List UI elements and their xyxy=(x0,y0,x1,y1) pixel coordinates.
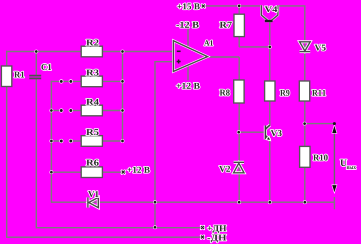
node right-bus-top xyxy=(121,50,124,53)
resistor R1 xyxy=(1,66,11,87)
wire bottom rail lower xyxy=(7,236,201,238)
resistor R3 xyxy=(81,76,102,87)
wire V5 R11 top xyxy=(304,6,306,81)
wire top +15V rail a xyxy=(206,5,261,7)
label 'R5' xyxy=(86,129,98,135)
node bottom 270 xyxy=(268,201,271,204)
contact R5 a xyxy=(60,140,63,143)
resistor R5 xyxy=(81,136,102,147)
label 'R9' xyxy=(280,90,289,96)
wire C1 bottom lead xyxy=(35,79,37,228)
label '-ДН' xyxy=(207,235,226,243)
wire R1 top lead xyxy=(6,51,8,66)
Uout dimension arrow xyxy=(332,126,336,193)
node base xyxy=(237,131,240,134)
wire R1 bottom lead xyxy=(6,87,8,238)
wire op-amp pos supply stub xyxy=(187,65,189,80)
label 'вых' xyxy=(347,166,356,169)
wire right bus xyxy=(122,51,124,142)
wire op-amp neg supply stub xyxy=(187,29,189,48)
wire R10 bottom xyxy=(304,167,306,202)
node bottom 305 xyxy=(303,201,306,204)
node Uout tap xyxy=(303,122,306,125)
resistor R8 xyxy=(234,80,244,103)
terminal bar output xyxy=(333,197,335,209)
label 'R10' xyxy=(313,155,328,161)
resistor R10 xyxy=(300,146,310,167)
label 'R1' xyxy=(14,72,24,78)
contact R4 a xyxy=(60,109,63,112)
wire R5 row right xyxy=(102,140,123,142)
op-amp U1 triangle xyxy=(173,41,207,72)
wire top rail right xyxy=(102,51,172,53)
wire R4 row right xyxy=(102,110,122,112)
label '+12 В' xyxy=(128,167,150,173)
node R5 right xyxy=(121,140,124,143)
wire R11 to R10 xyxy=(304,101,306,146)
node bottom 155 xyxy=(154,201,157,204)
wire R4 row left a xyxy=(51,110,62,112)
label '+ДН' xyxy=(208,225,227,233)
capacitor C1 xyxy=(29,76,41,79)
node bottom 239 xyxy=(238,201,241,204)
wire top rail left xyxy=(6,51,81,53)
wire R8 to V2 to bottom xyxy=(238,103,240,202)
wire op-amp plus input xyxy=(155,61,173,63)
wire V4 bottom lead xyxy=(269,22,271,82)
label '+12 В' xyxy=(177,83,200,89)
contact R3 a xyxy=(60,80,63,83)
wire R9 to collector xyxy=(269,101,271,125)
wire emitter to bottom xyxy=(269,140,271,202)
resistor R9 xyxy=(265,81,275,101)
label 'A1' xyxy=(204,40,213,45)
label 'V5' xyxy=(315,45,326,51)
contact R5 b xyxy=(69,140,72,143)
label 'V4' xyxy=(265,6,278,12)
op-amp minus marker xyxy=(177,50,181,52)
terminal x-mark halos xyxy=(122,5,205,239)
transistor V3 xyxy=(265,125,270,141)
contact R3 b xyxy=(69,80,72,83)
diode V4 xyxy=(261,5,278,21)
wire R6 row right to terminal xyxy=(102,171,121,173)
wire top +15V rail b xyxy=(278,5,306,7)
diode V2 xyxy=(234,162,244,173)
resistor R2 xyxy=(81,46,102,57)
wire R3 row left xyxy=(51,80,81,82)
node R7-V4 xyxy=(268,46,271,49)
wire left bus xyxy=(50,81,52,203)
wire bottom common xyxy=(51,201,334,203)
diode V5 xyxy=(300,42,311,52)
wire R5 row left b xyxy=(70,140,81,142)
label 'U' xyxy=(340,160,347,167)
wire output to R8 xyxy=(238,57,240,80)
label 'V1' xyxy=(88,191,98,197)
wire R7 to V4 node xyxy=(239,46,270,48)
wire base xyxy=(239,131,266,133)
wire R4 row left b xyxy=(70,110,81,112)
label 'R2' xyxy=(86,40,98,46)
terminal x marks: +15V, +12V, +DN, -DN xyxy=(122,5,205,239)
junction dot halos xyxy=(34,4,306,229)
label '-12 В' xyxy=(176,22,198,28)
wire bottom rail upper xyxy=(36,227,200,229)
resistor R6 xyxy=(81,167,102,178)
contact R4 b xyxy=(69,109,72,112)
wire R7 top lead xyxy=(238,6,240,14)
wire plus bus vertical xyxy=(154,61,156,228)
wire R6 row left xyxy=(51,171,81,173)
node Uout corner xyxy=(333,122,336,125)
wire R7 bottom lead xyxy=(238,37,240,47)
node R7 top xyxy=(238,5,241,8)
wire C1 top lead xyxy=(35,52,37,75)
label 'R11' xyxy=(312,90,326,96)
wire Uout tap xyxy=(305,123,335,125)
label '+15 В' xyxy=(178,3,200,9)
label 'R3' xyxy=(86,70,98,76)
wire R3 row right xyxy=(102,80,122,82)
resistor R4 xyxy=(81,105,102,116)
resistor R7 xyxy=(234,14,244,36)
node R3 right xyxy=(121,80,124,83)
resistor R11 xyxy=(299,81,309,101)
label 'R8' xyxy=(220,90,230,96)
diode V1 xyxy=(88,197,98,207)
label 'C1' xyxy=(41,64,51,70)
node bus R4 xyxy=(50,109,53,112)
wire R5 row left a xyxy=(51,140,62,142)
node rail 155 xyxy=(154,226,157,229)
label 'V3' xyxy=(271,130,282,136)
node bus R6 xyxy=(50,171,53,174)
node bus R5 xyxy=(50,140,53,143)
wire op-amp output xyxy=(207,56,240,58)
node C1-top xyxy=(35,50,38,53)
label 'R6' xyxy=(86,160,99,166)
label 'R4' xyxy=(86,99,99,105)
node R4 right xyxy=(121,109,124,112)
op-amp plus marker xyxy=(177,60,181,64)
label 'R7' xyxy=(220,22,232,28)
label 'V2' xyxy=(219,166,230,172)
